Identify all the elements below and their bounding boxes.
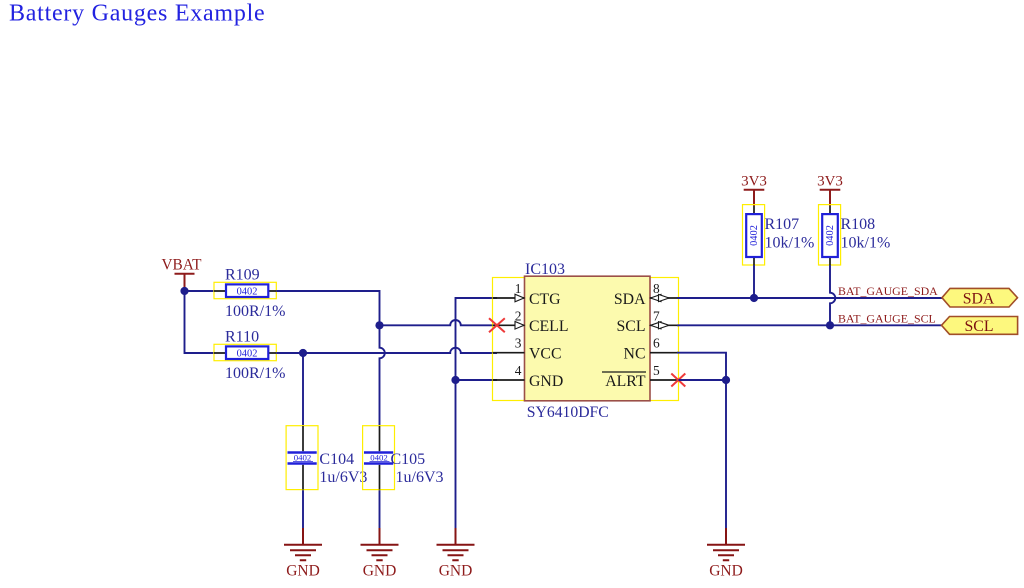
junction GND at IC	[451, 376, 459, 384]
wire R110 out to VCC pin with hop	[276, 348, 497, 353]
wire ALRT to junction	[679, 379, 727, 381]
wire SDA pin to port	[677, 297, 942, 299]
svg-text:SY6410DFC: SY6410DFC	[527, 404, 609, 421]
wire R109 out, down to C105, hop over R110 net	[276, 291, 384, 426]
pin 8 SDA	[614, 281, 679, 308]
svg-text:8: 8	[653, 281, 660, 296]
svg-text:SCL: SCL	[965, 318, 994, 335]
svg-text:6: 6	[653, 336, 660, 351]
svg-text:7: 7	[653, 308, 660, 323]
pin 5 ALRT	[602, 363, 679, 390]
svg-text:5: 5	[653, 363, 660, 378]
svg-text:0402: 0402	[237, 287, 258, 298]
svg-text:BAT_GAUGE_SCL: BAT_GAUGE_SCL	[838, 311, 936, 325]
svg-text:R107: R107	[765, 216, 800, 233]
junction CELL tap	[375, 321, 383, 329]
svg-text:3V3: 3V3	[741, 174, 767, 190]
svg-text:GND: GND	[286, 562, 320, 579]
junction VBAT	[180, 287, 188, 295]
svg-text:0402: 0402	[749, 225, 760, 246]
power 3V3 left	[741, 174, 767, 206]
svg-text:0402: 0402	[237, 349, 258, 360]
svg-text:R109: R109	[225, 266, 260, 283]
svg-text:GND: GND	[709, 562, 743, 579]
svg-text:10k/1%: 10k/1%	[841, 234, 891, 251]
svg-text:GND: GND	[363, 562, 397, 579]
svg-text:SCL: SCL	[617, 318, 646, 335]
wire C104 to GND	[302, 490, 304, 529]
wire C105 to GND	[379, 490, 381, 529]
wire SCL pin to port	[677, 324, 942, 326]
wire R107 to SDA net	[753, 265, 755, 298]
pin 7 SCL	[617, 308, 679, 335]
svg-text:1u/6V3: 1u/6V3	[396, 469, 444, 486]
svg-text:10k/1%: 10k/1%	[765, 234, 815, 251]
wire VBAT down to R110	[185, 291, 215, 353]
svg-text:0402: 0402	[294, 452, 312, 462]
wire R108 to SCL net with hop over SDA	[830, 265, 835, 325]
no-ERC X on ALRT	[671, 374, 685, 387]
port SCL	[942, 317, 1018, 335]
resistor R109	[214, 266, 285, 320]
IC U103 selection box	[493, 278, 679, 401]
pin 2 CELL	[493, 308, 569, 335]
svg-text:GND: GND	[439, 562, 473, 579]
svg-text:0402: 0402	[825, 225, 836, 246]
wire NC to junction	[677, 353, 726, 380]
svg-text:2: 2	[515, 308, 522, 323]
resistor R108	[819, 205, 891, 265]
power 3V3 right	[817, 174, 843, 206]
pin 4 GND	[493, 363, 564, 390]
pin 3 VCC	[493, 336, 562, 363]
svg-text:1u/6V3: 1u/6V3	[319, 469, 367, 486]
svg-text:C105: C105	[391, 451, 426, 468]
pin 6 NC	[624, 336, 679, 363]
svg-text:R110: R110	[225, 328, 259, 345]
port SDA	[942, 288, 1018, 307]
svg-text:Battery Gauges Example: Battery Gauges Example	[9, 0, 265, 26]
svg-text:4: 4	[515, 363, 522, 378]
svg-text:100R/1%: 100R/1%	[225, 303, 285, 320]
ground under ALRT net	[707, 528, 745, 579]
svg-text:3V3: 3V3	[817, 174, 843, 190]
junction R107-SDA	[750, 294, 758, 302]
svg-text:CTG: CTG	[529, 291, 561, 308]
svg-text:VBAT: VBAT	[162, 257, 203, 274]
wire GND pin	[456, 379, 498, 381]
svg-text:SDA: SDA	[614, 291, 646, 308]
ground under C104	[284, 528, 322, 579]
wire C104 tap	[302, 353, 304, 426]
junction R108-SCL	[826, 321, 834, 329]
pin 1 CTG	[493, 281, 561, 308]
wire to CELL pin with hop	[380, 320, 498, 325]
wire VBAT to R109	[185, 290, 215, 292]
junction NC-ALRT	[722, 376, 730, 384]
capacitor C105	[363, 426, 444, 490]
svg-text:CELL: CELL	[529, 318, 569, 335]
resistor R107	[743, 205, 815, 265]
svg-text:VCC: VCC	[529, 346, 561, 363]
svg-text:3: 3	[515, 336, 522, 351]
svg-text:100R/1%: 100R/1%	[225, 365, 285, 382]
wire junction to GND	[725, 380, 727, 529]
ground under IC	[437, 528, 475, 579]
svg-text:GND: GND	[529, 373, 563, 390]
svg-text:C104: C104	[319, 451, 354, 468]
svg-text:0402: 0402	[370, 452, 388, 462]
junction C104 tap	[299, 349, 307, 357]
svg-text:ALRT: ALRT	[605, 373, 646, 390]
svg-text:NC: NC	[624, 346, 646, 363]
svg-text:SDA: SDA	[963, 290, 995, 307]
ground under C105	[361, 528, 399, 579]
wire CTG to GND vertical	[456, 298, 498, 529]
svg-text:BAT_GAUGE_SDA: BAT_GAUGE_SDA	[838, 284, 938, 298]
resistor R110	[214, 328, 285, 382]
svg-text:1: 1	[515, 281, 522, 296]
svg-text:IC103: IC103	[525, 261, 565, 278]
capacitor C104	[286, 426, 367, 490]
no-ERC X on CELL	[489, 318, 505, 332]
svg-text:R108: R108	[841, 216, 876, 233]
power VBAT	[162, 257, 203, 291]
op-amp body IC103	[525, 261, 651, 421]
